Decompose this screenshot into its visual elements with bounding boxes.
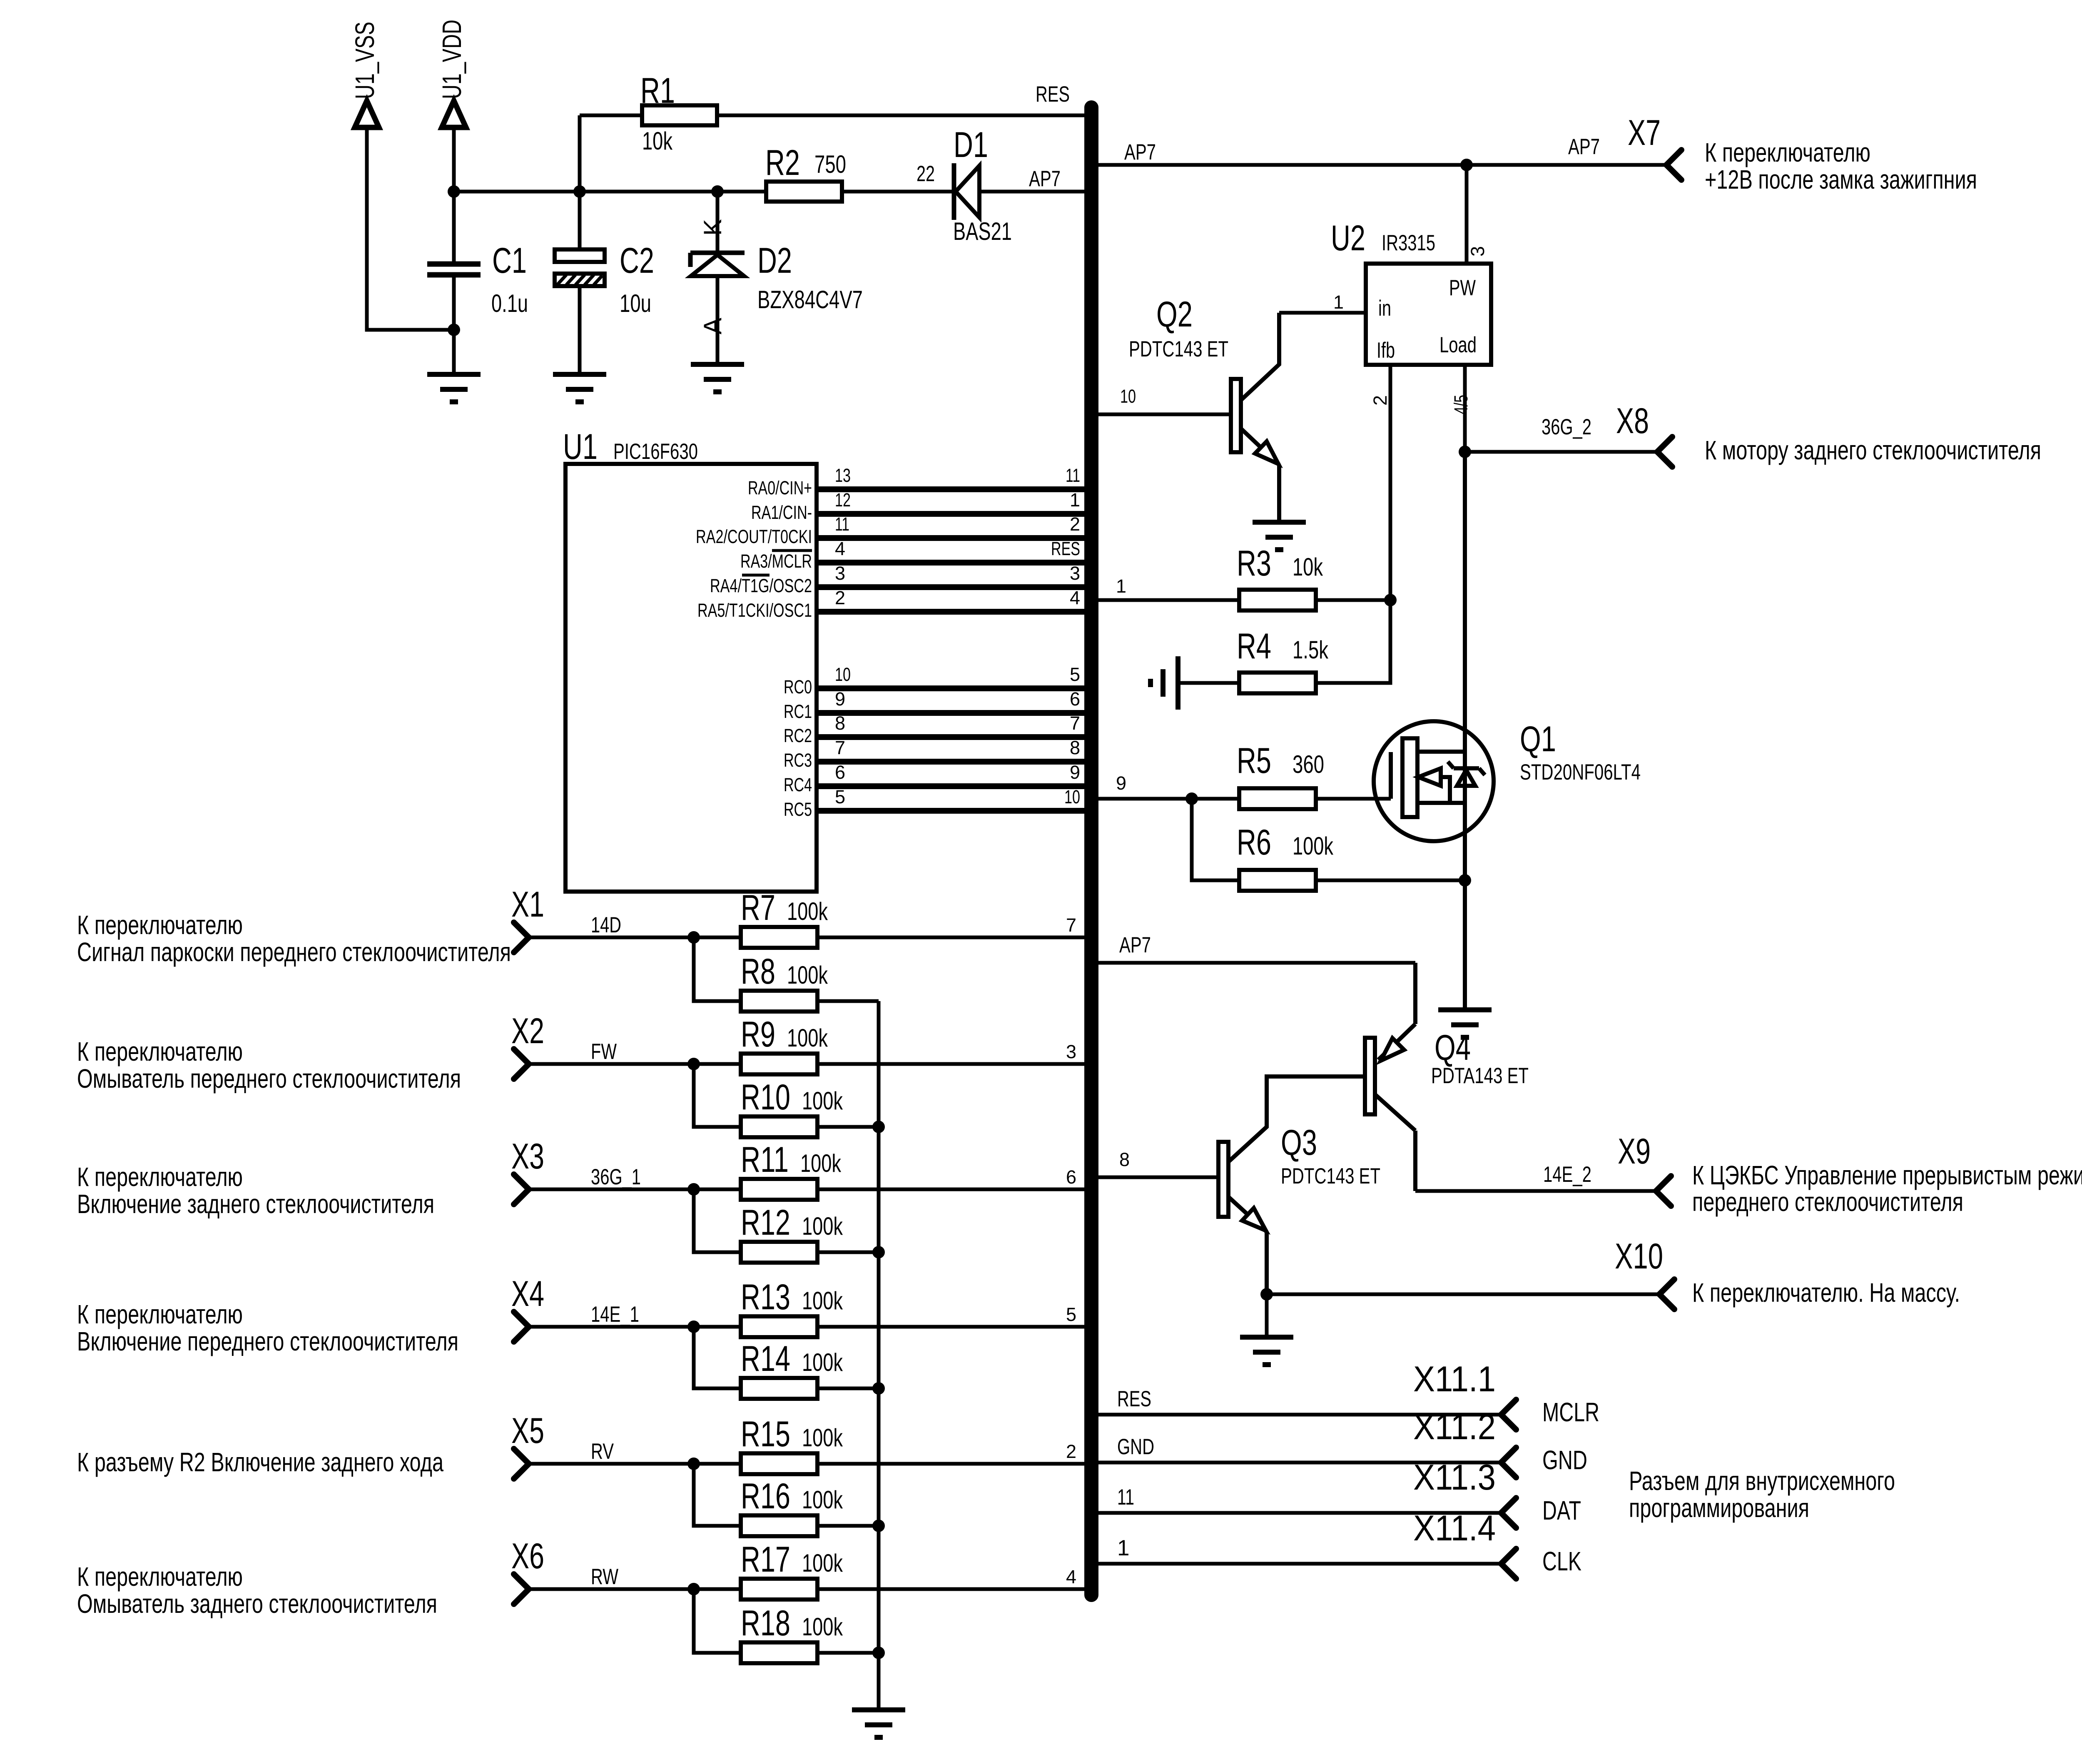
- svg-text:1: 1: [1333, 292, 1344, 313]
- svg-text:100k: 100k: [802, 1087, 843, 1115]
- U1 pin RC4 wire to bus: [784, 762, 1084, 795]
- svg-text:RC0: RC0: [784, 676, 812, 698]
- svg-text:X11.3: X11.3: [1413, 1458, 1496, 1497]
- svg-text:3: 3: [1066, 1041, 1076, 1062]
- resistor R16: [694, 1464, 879, 1536]
- svg-text:D2: D2: [757, 241, 792, 281]
- wire RES to connector X11.1: [1098, 1359, 1599, 1430]
- svg-text:К переключателю: К переключателю: [77, 1162, 243, 1192]
- svg-text:RA0/CIN+: RA0/CIN+: [748, 477, 812, 498]
- resistor R2: [717, 143, 846, 202]
- svg-text:X4: X4: [511, 1274, 544, 1314]
- svg-text:6: 6: [835, 762, 845, 783]
- svg-text:Сигнал паркоски переднего стек: Сигнал паркоски переднего стеклоочистите…: [77, 937, 511, 967]
- svg-text:13: 13: [835, 465, 851, 486]
- svg-text:36G_2: 36G_2: [1542, 415, 1591, 439]
- wire X5 to ladder: [529, 1439, 741, 1470]
- resistor R12: [694, 1189, 879, 1263]
- svg-text:X9: X9: [1618, 1131, 1651, 1171]
- X11 description: [1629, 1466, 1895, 1523]
- svg-text:X7: X7: [1628, 113, 1661, 153]
- connector X7: [1628, 113, 1681, 180]
- svg-text:Q4: Q4: [1434, 1028, 1471, 1068]
- svg-text:4: 4: [835, 538, 845, 559]
- svg-text:X11.2: X11.2: [1413, 1407, 1496, 1447]
- wire 14E_2 to X9: [1415, 1162, 1656, 1191]
- svg-text:программирования: программирования: [1629, 1493, 1809, 1523]
- svg-text:RC2: RC2: [784, 725, 812, 746]
- svg-text:Омыватель переднего стеклоочис: Омыватель переднего стеклоочистителя: [77, 1064, 461, 1094]
- svg-text:X6: X6: [511, 1536, 544, 1576]
- U1 pin RA2/COUT/T0CKI wire to bus: [696, 513, 1084, 547]
- ladder common rail: [872, 1001, 885, 1710]
- diode D1 BAS21: [953, 125, 1084, 245]
- svg-text:4/5: 4/5: [1450, 395, 1472, 414]
- svg-text:11: 11: [1117, 1485, 1134, 1510]
- svg-text:Q2: Q2: [1156, 294, 1193, 334]
- svg-text:RW: RW: [591, 1565, 618, 1589]
- ground under Q3: [1240, 1337, 1293, 1365]
- svg-text:PDTC143 ET: PDTC143 ET: [1129, 337, 1228, 361]
- svg-text:К разъему R2 Включение заднего: К разъему R2 Включение заднего хода: [77, 1447, 443, 1477]
- IC U2 box: [1331, 218, 1491, 365]
- svg-text:BZX84C4V7: BZX84C4V7: [757, 286, 863, 314]
- capacitor C1: [427, 192, 528, 374]
- wire 1 to connector X11.4: [1098, 1508, 1581, 1579]
- svg-text:R8: R8: [741, 952, 775, 992]
- svg-text:Ifb: Ifb: [1377, 338, 1395, 363]
- svg-text:MCLR: MCLR: [1542, 1397, 1599, 1427]
- svg-text:22: 22: [916, 162, 935, 186]
- svg-text:5: 5: [835, 786, 845, 807]
- svg-text:7: 7: [1066, 914, 1076, 936]
- resistor R4: [1151, 600, 1390, 710]
- svg-text:К переключателю: К переключателю: [77, 910, 243, 940]
- svg-text:360: 360: [1293, 750, 1324, 778]
- resistor R15: [741, 1414, 1084, 1474]
- connector X5: [511, 1411, 544, 1479]
- svg-text:X5: X5: [511, 1411, 544, 1451]
- svg-text:100k: 100k: [802, 1613, 843, 1641]
- connector X4: [511, 1274, 544, 1342]
- X6 description: [77, 1562, 437, 1619]
- resistor R8: [694, 937, 879, 1012]
- svg-text:10: 10: [835, 664, 851, 685]
- svg-text:AP7: AP7: [1029, 167, 1061, 191]
- svg-text:R5: R5: [1237, 741, 1271, 781]
- svg-text:AP7: AP7: [1568, 135, 1600, 159]
- wire X1 to ladder: [529, 913, 741, 944]
- resistor R18: [694, 1589, 879, 1663]
- U1 pin RC0 wire to bus: [784, 664, 1084, 698]
- wire R2 to D1: [842, 162, 953, 192]
- X7 description: [1705, 137, 1977, 194]
- svg-text:9: 9: [1116, 772, 1126, 794]
- svg-text:100k: 100k: [802, 1287, 843, 1315]
- X3 description: [77, 1162, 434, 1219]
- svg-text:1: 1: [1070, 489, 1080, 511]
- resistor R13: [741, 1277, 1084, 1337]
- svg-text:6: 6: [1066, 1166, 1076, 1188]
- svg-text:in: in: [1378, 296, 1391, 321]
- svg-text:10k: 10k: [1293, 553, 1323, 581]
- svg-text:C1: C1: [492, 241, 527, 281]
- connector X10: [1615, 1236, 1674, 1309]
- svg-text:1.5k: 1.5k: [1293, 636, 1329, 664]
- svg-text:U1_VDD: U1_VDD: [437, 20, 467, 99]
- wire X4 to ladder: [529, 1302, 741, 1333]
- svg-text:RV: RV: [591, 1439, 614, 1464]
- svg-text:2: 2: [835, 587, 845, 608]
- resistor R9: [741, 1014, 1084, 1074]
- svg-text:R7: R7: [741, 888, 775, 928]
- svg-text:100k: 100k: [802, 1212, 843, 1240]
- svg-text:100k: 100k: [787, 897, 828, 925]
- U1 pin RC2 wire to bus: [784, 713, 1084, 746]
- svg-text:100k: 100k: [800, 1149, 842, 1177]
- transistor Q2 (PDTC143 ET): [1098, 294, 1279, 522]
- svg-text:R15: R15: [741, 1414, 790, 1454]
- svg-text:FW: FW: [591, 1039, 617, 1064]
- svg-text:X3: X3: [511, 1136, 544, 1176]
- svg-text:A: A: [699, 318, 727, 334]
- X2 description: [77, 1036, 461, 1094]
- svg-text:100k: 100k: [787, 961, 828, 989]
- connector X8: [1616, 401, 1672, 467]
- U2 pin 3 wire: [1467, 165, 1488, 264]
- resistor R10: [694, 1064, 879, 1137]
- connector X2: [511, 1011, 544, 1079]
- net label RES: [1036, 82, 1070, 107]
- svg-text:Включение заднего стеклоочисти: Включение заднего стеклоочистителя: [77, 1189, 434, 1219]
- svg-text:100k: 100k: [802, 1348, 843, 1376]
- svg-text:3: 3: [835, 563, 845, 584]
- svg-text:8: 8: [835, 713, 845, 734]
- svg-text:RA3/MCLR: RA3/MCLR: [740, 551, 812, 572]
- wire GND to connector X11.2: [1098, 1407, 1587, 1477]
- power symbol U1_VSS: [350, 22, 380, 127]
- svg-text:100k: 100k: [802, 1549, 843, 1577]
- svg-text:K: K: [699, 219, 727, 236]
- svg-text:+12В после замка зажигпния: +12В после замка зажигпния: [1705, 164, 1977, 194]
- svg-text:R16: R16: [741, 1476, 790, 1516]
- X8 description: [1705, 435, 2041, 465]
- svg-text:RES: RES: [1036, 82, 1070, 107]
- svg-text:RC3: RC3: [784, 750, 812, 771]
- svg-text:2: 2: [1066, 1441, 1076, 1462]
- svg-text:RA1/CIN-: RA1/CIN-: [751, 502, 812, 523]
- svg-text:10: 10: [1064, 786, 1080, 807]
- svg-text:7: 7: [1070, 713, 1080, 734]
- X4 description: [77, 1299, 458, 1356]
- svg-text:К ЦЭКБС Управление прерывистым: К ЦЭКБС Управление прерывистым режимом: [1692, 1160, 2082, 1190]
- svg-text:R14: R14: [741, 1339, 790, 1379]
- svg-text:R1: R1: [640, 71, 675, 111]
- svg-text:100k: 100k: [1293, 832, 1334, 860]
- U1 pin RA5/T1CKI/OSC1 wire to bus: [697, 587, 1084, 621]
- svg-text:750: 750: [814, 150, 846, 178]
- X1 description: [77, 910, 511, 967]
- svg-text:R10: R10: [741, 1077, 790, 1117]
- X10 description: [1692, 1278, 1960, 1308]
- U1 pin RA3/MCLR wire to bus: [740, 538, 1084, 572]
- svg-text:RA5/T1CKI/OSC1: RA5/T1CKI/OSC1: [697, 600, 812, 621]
- wire X6 to ladder: [529, 1565, 741, 1595]
- U1 pin RA0/CIN+ wire to bus: [748, 465, 1084, 498]
- transistor Q1 (STD20NF06LT4 MOSFET): [1374, 452, 1641, 1010]
- svg-text:Включение переднего стеклоочис: Включение переднего стеклоочистителя: [77, 1326, 458, 1356]
- svg-text:GND: GND: [1542, 1445, 1587, 1475]
- svg-text:RC5: RC5: [784, 799, 812, 820]
- svg-text:10: 10: [1120, 386, 1136, 407]
- svg-text:R17: R17: [741, 1540, 790, 1580]
- svg-text:AP7: AP7: [1124, 140, 1156, 164]
- wire U1_VSS vertical and over to VDD/C1 node: [367, 127, 454, 330]
- resistor R5: [1098, 741, 1391, 809]
- resistor R1: [580, 71, 1084, 192]
- svg-text:RES: RES: [1117, 1387, 1151, 1411]
- wire to X10: [1260, 1288, 1659, 1301]
- U1 pin RC1 wire to bus: [784, 688, 1084, 722]
- svg-text:8: 8: [1070, 737, 1080, 758]
- svg-text:Q3: Q3: [1281, 1123, 1317, 1163]
- svg-text:3: 3: [1070, 563, 1080, 584]
- svg-text:PDTA143 ET: PDTA143 ET: [1431, 1064, 1529, 1088]
- IC U1 box: [563, 427, 817, 892]
- svg-text:RES: RES: [1051, 538, 1080, 559]
- svg-text:9: 9: [835, 688, 845, 710]
- svg-text:100k: 100k: [787, 1024, 828, 1052]
- svg-text:AP7: AP7: [1119, 933, 1151, 957]
- svg-text:14D: 14D: [591, 913, 621, 937]
- U1 pin RC3 wire to bus: [784, 737, 1084, 771]
- resistor R17: [741, 1540, 1084, 1600]
- wire 36G_2 to X8: [1459, 415, 1657, 458]
- svg-text:U1: U1: [563, 427, 598, 467]
- svg-text:R2: R2: [765, 143, 800, 183]
- svg-text:U2: U2: [1331, 218, 1365, 258]
- svg-text:X10: X10: [1615, 1236, 1663, 1276]
- svg-text:8: 8: [1119, 1149, 1130, 1170]
- connector X9: [1618, 1131, 1671, 1206]
- svg-text:Q1: Q1: [1520, 719, 1556, 759]
- transistor Q4 (PDTA143 ET): [1365, 963, 1529, 1191]
- svg-text:CLK: CLK: [1542, 1546, 1581, 1576]
- svg-text:STD20NF06LT4: STD20NF06LT4: [1520, 760, 1641, 785]
- U2 pin 4/5 (Load) wire: [1450, 365, 1472, 452]
- svg-text:К переключателю: К переключателю: [77, 1562, 243, 1592]
- svg-text:GND: GND: [1117, 1435, 1154, 1459]
- ground under C1: [427, 374, 481, 402]
- svg-text:R9: R9: [741, 1014, 775, 1054]
- svg-text:Load: Load: [1439, 333, 1477, 357]
- U1 pin RA1/CIN- wire to bus: [751, 489, 1084, 523]
- svg-text:D1: D1: [954, 125, 988, 165]
- svg-text:5: 5: [1066, 1304, 1076, 1325]
- svg-text:R18: R18: [741, 1603, 790, 1643]
- svg-text:12: 12: [835, 489, 851, 511]
- svg-text:100k: 100k: [802, 1486, 843, 1514]
- svg-text:3: 3: [1467, 246, 1488, 257]
- svg-text:2: 2: [1370, 395, 1391, 406]
- svg-text:R13: R13: [741, 1277, 790, 1317]
- svg-text:R4: R4: [1237, 626, 1271, 666]
- svg-text:R6: R6: [1237, 822, 1271, 862]
- transistor Q3 (PDTC143 ET): [1098, 1076, 1380, 1294]
- svg-text:1: 1: [1116, 576, 1126, 597]
- connector X1: [511, 884, 544, 952]
- resistor R3: [1098, 543, 1397, 610]
- svg-text:Омыватель заднего стеклоочисти: Омыватель заднего стеклоочистителя: [77, 1589, 437, 1619]
- connector X3: [511, 1136, 544, 1204]
- svg-text:C2: C2: [620, 241, 654, 281]
- wire AP7 to X7: [1098, 135, 1666, 171]
- svg-text:DAT: DAT: [1542, 1495, 1581, 1525]
- svg-text:К мотору заднего стеклоочистит: К мотору заднего стеклоочистителя: [1705, 435, 2041, 465]
- svg-text:К переключателю. На массу.: К переключателю. На массу.: [1692, 1278, 1960, 1308]
- svg-text:BAS21: BAS21: [953, 217, 1012, 245]
- svg-text:К переключателю: К переключателю: [1705, 137, 1870, 167]
- wire AP7 to Q4 emitter: [1098, 933, 1415, 963]
- svg-text:11: 11: [1066, 465, 1080, 486]
- svg-text:IR3315: IR3315: [1382, 231, 1435, 255]
- svg-text:36G_1: 36G_1: [591, 1165, 641, 1189]
- svg-text:4: 4: [1070, 587, 1080, 608]
- ground under Q1: [1438, 1010, 1492, 1037]
- wire Q3 emitter to ground: [1265, 1294, 1269, 1337]
- resistor R7: [741, 888, 1084, 948]
- svg-text:11: 11: [835, 513, 849, 535]
- node VDD rail: [448, 185, 766, 198]
- svg-text:X2: X2: [511, 1011, 544, 1051]
- connector X6: [511, 1536, 544, 1604]
- wire 11 to connector X11.3: [1098, 1458, 1581, 1528]
- svg-text:PIC16F630: PIC16F630: [613, 439, 698, 464]
- ground under C2: [553, 374, 606, 402]
- svg-text:10k: 10k: [642, 127, 673, 155]
- svg-text:14E_1: 14E_1: [591, 1302, 639, 1327]
- wire X2 to ladder: [529, 1039, 741, 1070]
- svg-text:PDTC143 ET: PDTC143 ET: [1281, 1164, 1380, 1188]
- X9 description: [1692, 1160, 2082, 1217]
- svg-text:переднего стеклоочистителя: переднего стеклоочистителя: [1692, 1187, 1963, 1217]
- capacitor C2 (polarized): [555, 192, 654, 374]
- svg-text:4: 4: [1066, 1566, 1076, 1587]
- svg-text:X11.4: X11.4: [1413, 1508, 1496, 1548]
- resistor R6: [1192, 799, 1471, 891]
- svg-text:2: 2: [1070, 513, 1080, 535]
- svg-text:U1_VSS: U1_VSS: [350, 22, 380, 99]
- svg-text:6: 6: [1070, 688, 1080, 710]
- resistor R11: [741, 1140, 1084, 1200]
- svg-text:7: 7: [835, 737, 845, 758]
- U1 pin RC5 wire to bus: [784, 786, 1084, 820]
- U2 pin 1 wire: [1279, 292, 1366, 313]
- svg-text:14E_2: 14E_2: [1543, 1162, 1591, 1187]
- wire U1_VDD vertical: [452, 127, 456, 192]
- power symbol U1_VDD: [437, 20, 467, 127]
- ground under Q2: [1253, 522, 1306, 550]
- svg-text:RC1: RC1: [784, 701, 812, 722]
- svg-text:К переключателю: К переключателю: [77, 1299, 243, 1329]
- U2 pin 2 (Ifb) wire: [1370, 365, 1391, 600]
- svg-text:R11: R11: [741, 1140, 789, 1180]
- resistor R14: [694, 1327, 879, 1399]
- svg-text:5: 5: [1070, 664, 1080, 685]
- wire X3 to ladder: [529, 1165, 741, 1196]
- svg-text:R12: R12: [741, 1203, 790, 1243]
- svg-text:10u: 10u: [620, 289, 651, 317]
- zener diode D2: [690, 192, 863, 364]
- ground under D2: [691, 364, 744, 392]
- svg-text:X1: X1: [511, 884, 544, 924]
- svg-text:100k: 100k: [802, 1424, 843, 1452]
- ground at ladder rail bottom: [852, 1710, 905, 1737]
- svg-text:X8: X8: [1616, 401, 1649, 441]
- svg-text:RA4/T1G/OSC2: RA4/T1G/OSC2: [710, 575, 812, 596]
- svg-text:0.1u: 0.1u: [491, 289, 528, 317]
- svg-text:Разъем для внутрисхемного: Разъем для внутрисхемного: [1629, 1466, 1895, 1496]
- svg-text:1: 1: [1117, 1536, 1129, 1560]
- bus (vertical net bundle): [1084, 107, 1098, 1595]
- U1 pin RA4/T1G/OSC2 wire to bus: [710, 563, 1084, 596]
- svg-text:PW: PW: [1449, 276, 1476, 300]
- svg-text:RA2/COUT/T0CKI: RA2/COUT/T0CKI: [696, 526, 812, 547]
- svg-text:RC4: RC4: [784, 774, 812, 795]
- X5 description: [77, 1447, 443, 1477]
- svg-text:R3: R3: [1237, 543, 1271, 583]
- svg-text:X11.1: X11.1: [1413, 1359, 1496, 1399]
- svg-text:9: 9: [1070, 762, 1080, 783]
- svg-text:К переключателю: К переключателю: [77, 1036, 243, 1066]
